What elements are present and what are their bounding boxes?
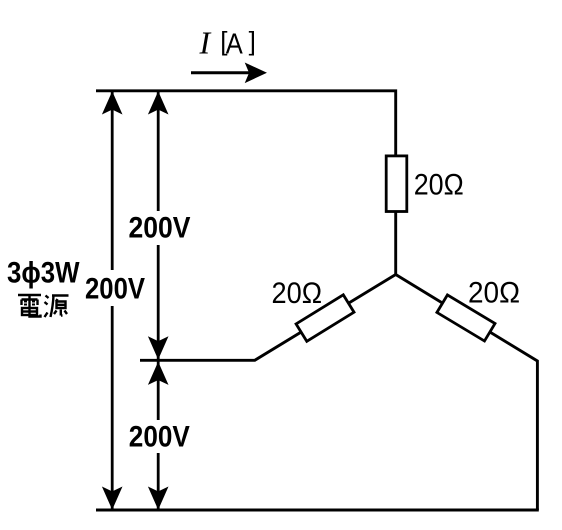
svg-text:3ϕ3W: 3ϕ3W bbox=[7, 257, 80, 290]
svg-text:20Ω: 20Ω bbox=[272, 277, 323, 310]
svg-text:200V: 200V bbox=[129, 420, 190, 453]
svg-text:200V: 200V bbox=[129, 211, 191, 244]
svg-text:]: ] bbox=[249, 26, 256, 56]
svg-text:I: I bbox=[199, 25, 212, 61]
svg-text:20Ω: 20Ω bbox=[414, 169, 464, 202]
svg-text:A: A bbox=[226, 29, 244, 61]
svg-text:20Ω: 20Ω bbox=[468, 277, 520, 310]
svg-text:200V: 200V bbox=[85, 273, 145, 306]
